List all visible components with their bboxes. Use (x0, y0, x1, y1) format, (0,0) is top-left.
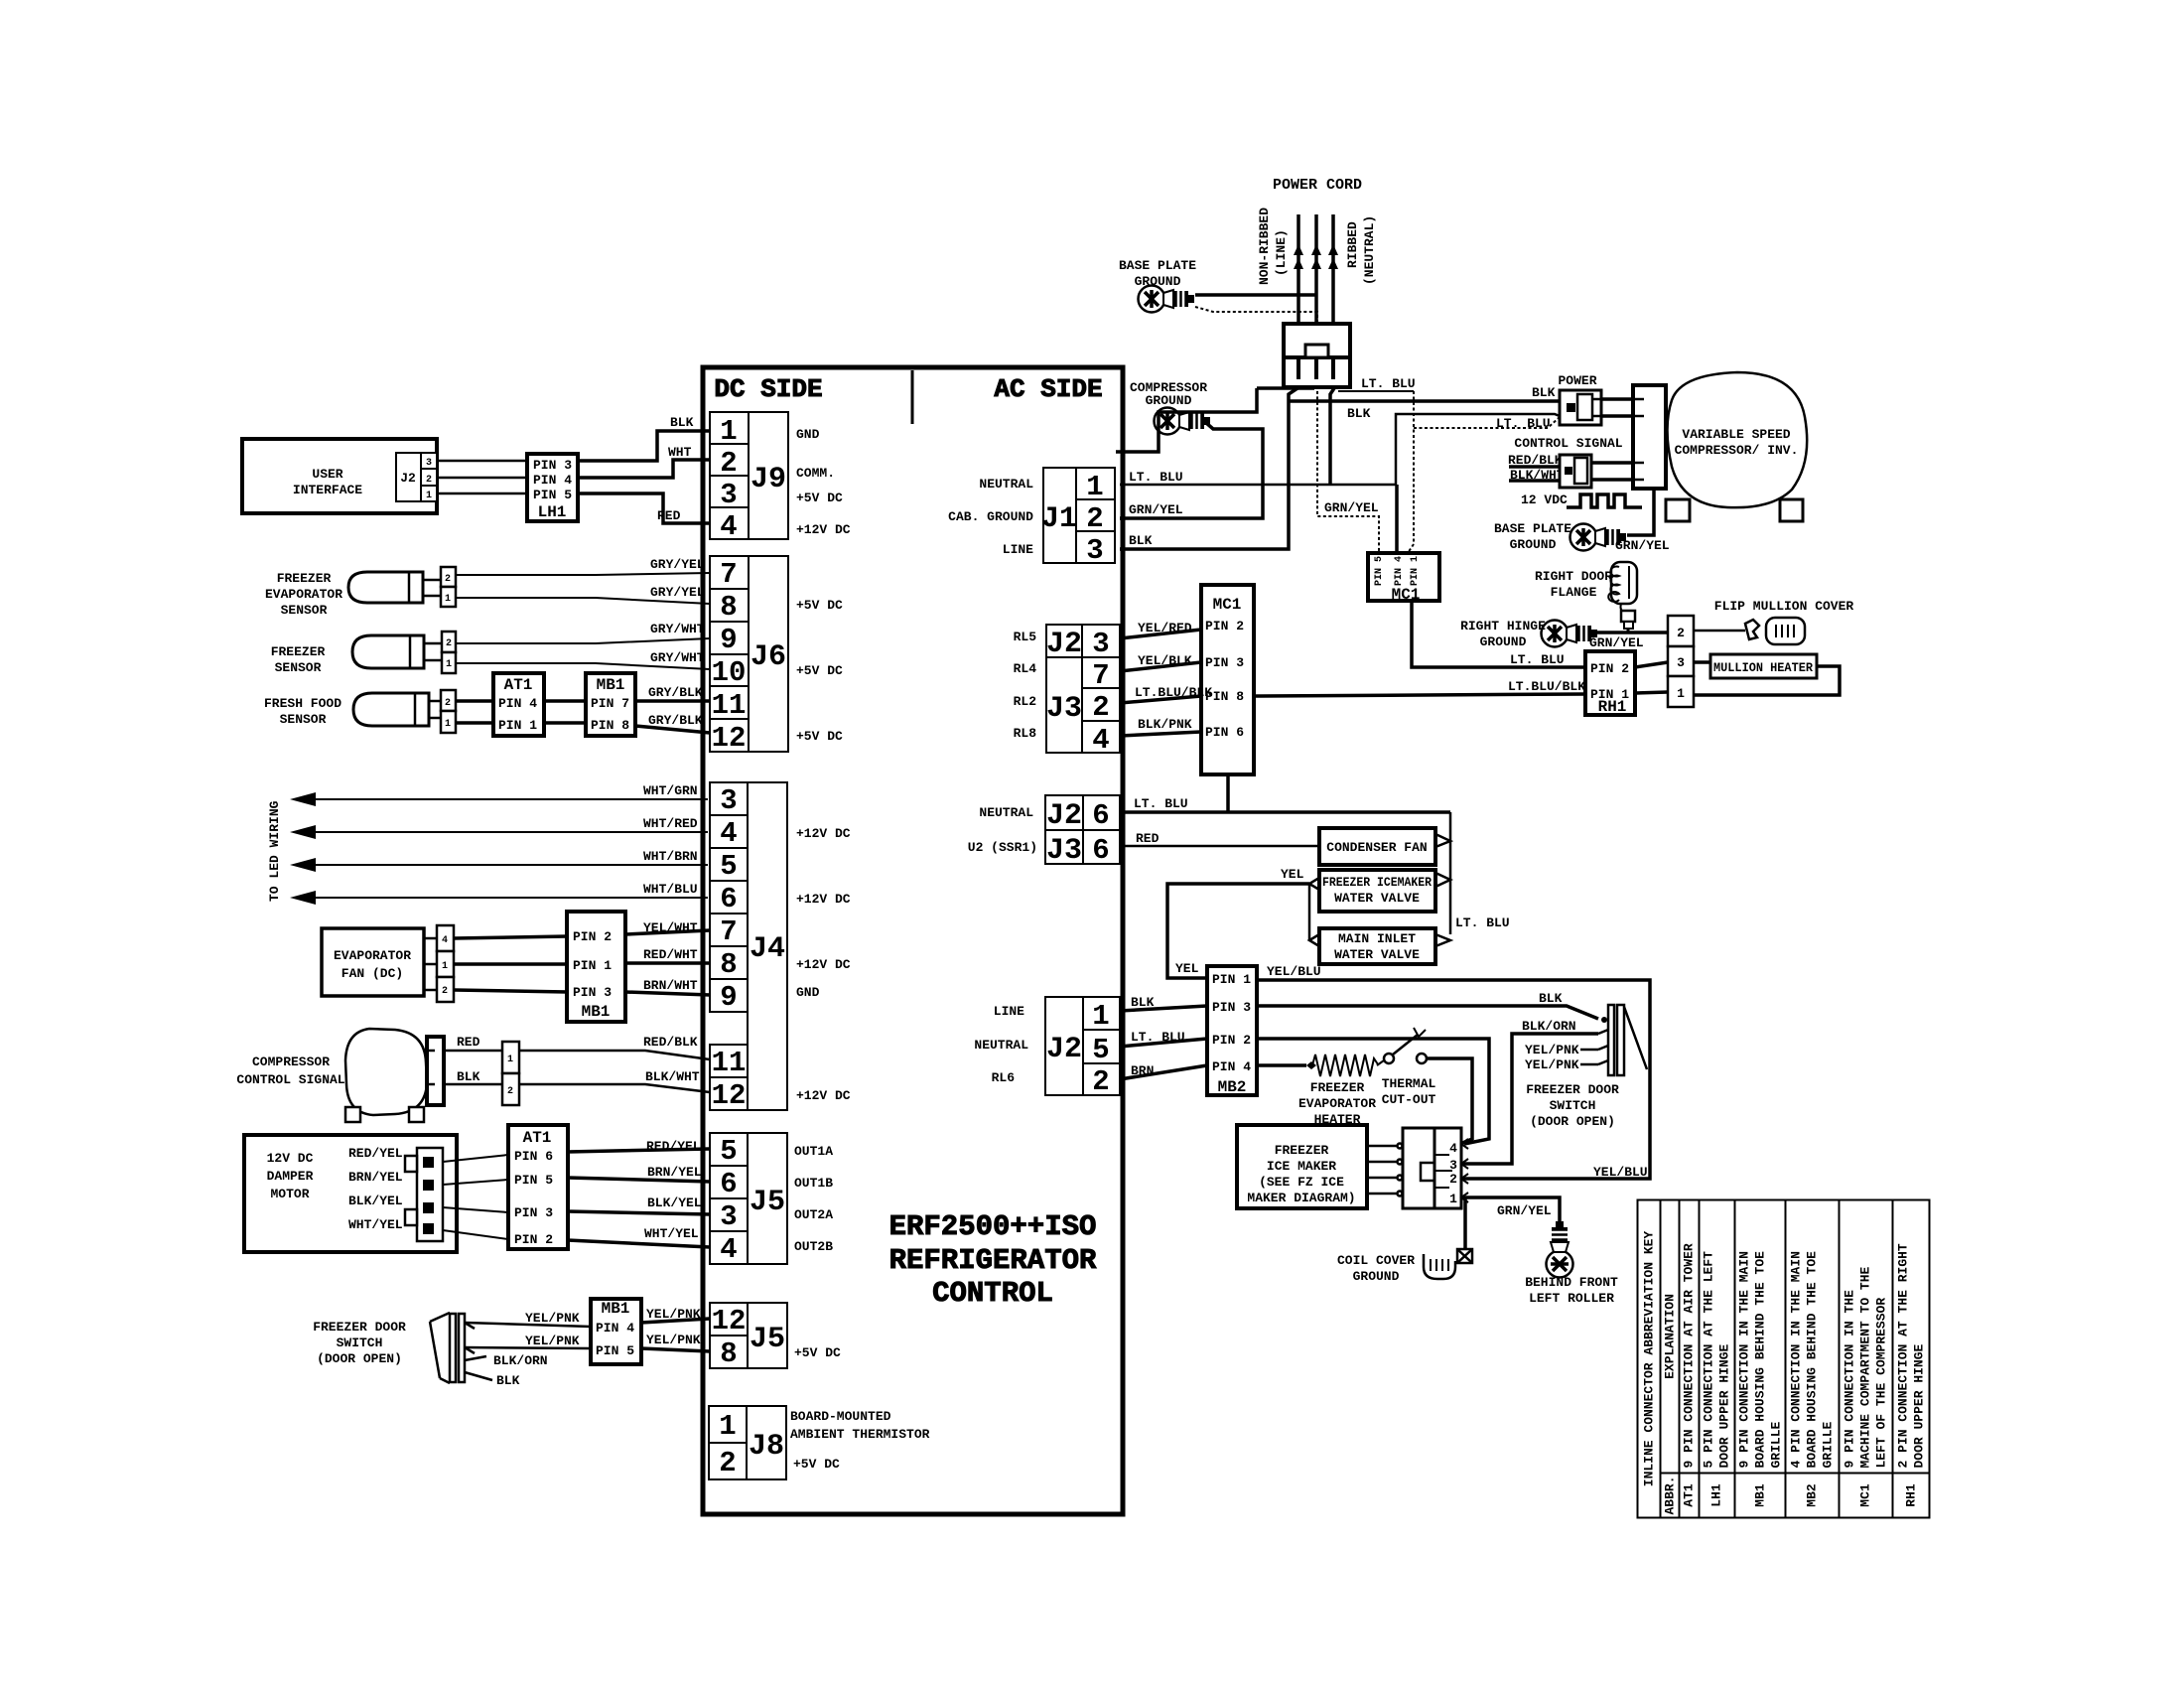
svg-text:12: 12 (712, 1305, 747, 1337)
LED wire arrow 1 WHT/GRN (294, 798, 708, 800)
svg-text:(SEE FZ ICE: (SEE FZ ICE (1259, 1175, 1344, 1190)
behind front left roller lug (1547, 1221, 1573, 1278)
svg-text:PIN 5: PIN 5 (533, 488, 572, 502)
svg-text:SENSOR: SENSOR (275, 660, 322, 675)
svg-text:1: 1 (507, 1055, 513, 1065)
wire RED/WHT to J4-8 (625, 961, 710, 965)
wire GRY/YEL to J6-8 (456, 598, 710, 604)
svg-text:LT. BLU: LT. BLU (1131, 1030, 1185, 1045)
wire BLK J2-1 to MB2 pin3 (1120, 1006, 1207, 1011)
svg-text:PIN 2: PIN 2 (1212, 1033, 1251, 1048)
connector J2 on user interface (396, 453, 437, 501)
svg-text:4: 4 (720, 1233, 737, 1266)
svg-text:GRY/BLK: GRY/BLK (648, 713, 703, 728)
svg-text:1: 1 (1449, 1192, 1457, 1206)
LED wire arrow 4 WHT/BLU (294, 897, 708, 899)
wire GRY/WHT to J6-10 (456, 663, 710, 669)
svg-text:RL6: RL6 (992, 1070, 1016, 1085)
base plate ground label (lower) (1494, 521, 1571, 552)
svg-text:PIN 4: PIN 4 (1212, 1059, 1251, 1074)
svg-text:BLK: BLK (1131, 995, 1155, 1010)
freezer sensor 2-pin connector (442, 632, 456, 673)
wire BLK/WHT to J4-12 (519, 1084, 710, 1092)
svg-text:MB1: MB1 (602, 1300, 630, 1318)
svg-text:LEFT ROLLER: LEFT ROLLER (1529, 1291, 1614, 1306)
wire YEL/PNK to MB1 pin4 (465, 1323, 591, 1327)
svg-text:8: 8 (720, 948, 737, 981)
variable speed compressor blob (1668, 372, 1808, 507)
svg-text:MOTOR: MOTOR (270, 1187, 309, 1201)
svg-text:MAKER DIAGRAM): MAKER DIAGRAM) (1247, 1191, 1355, 1205)
wire LT. BLU from J2-6 neutral bus (1120, 810, 1450, 814)
svg-text:J2: J2 (1046, 1033, 1082, 1066)
fresh food sensor bulb (353, 693, 429, 726)
svg-text:VARIABLE SPEED: VARIABLE SPEED (1682, 427, 1790, 442)
svg-text:2: 2 (720, 447, 737, 480)
svg-text:6: 6 (1092, 799, 1109, 832)
compressor ground label (1130, 380, 1207, 408)
svg-text:7: 7 (720, 915, 737, 948)
wire GRN/YEL connector pin1 to roller ground (1461, 1197, 1560, 1223)
svg-text:RED: RED (657, 508, 681, 523)
wire BLK LH1 to J9-1 (578, 431, 710, 461)
svg-text:RL2: RL2 (1014, 694, 1037, 709)
svg-text:RED: RED (1136, 831, 1160, 846)
wire LT.BLU branch up to plug right pin (1330, 388, 1334, 485)
wire base plate ground to cord (1195, 293, 1316, 297)
svg-text:8: 8 (720, 591, 737, 624)
svg-text:LT. BLU: LT. BLU (1361, 376, 1416, 391)
svg-text:11: 11 (712, 689, 747, 722)
svg-text:GND: GND (796, 985, 820, 1000)
svg-text:PIN 6: PIN 6 (1205, 725, 1244, 740)
coil cover ground label (1337, 1253, 1415, 1284)
svg-text:RED/BLK: RED/BLK (643, 1035, 698, 1050)
svg-text:3: 3 (426, 458, 432, 469)
svg-text:WATER VALVE: WATER VALVE (1334, 891, 1420, 906)
svg-text:BLK/PNK: BLK/PNK (1138, 717, 1192, 732)
wire GRY/BLK to J6-12 (635, 726, 710, 733)
svg-text:SWITCH: SWITCH (1550, 1098, 1596, 1113)
wire LT.BLU/BLK J3-2 to MC1 (1120, 696, 1201, 703)
svg-text:1: 1 (445, 719, 451, 730)
svg-text:SENSOR: SENSOR (281, 603, 328, 618)
svg-text:RL8: RL8 (1014, 726, 1037, 741)
freezer door switch (left) label (313, 1320, 406, 1366)
cord barbs (1294, 244, 1338, 269)
svg-text:GROUND: GROUND (1510, 537, 1557, 552)
svg-text:PIN 1: PIN 1 (1212, 972, 1251, 987)
svg-text:PIN 2: PIN 2 (1590, 661, 1629, 676)
inline connector abbreviation key table (rotated) (1637, 1201, 1930, 1519)
svg-text:RL5: RL5 (1014, 630, 1037, 644)
inline connector MB1 (fan) (567, 912, 625, 1022)
svg-text:+5V DC: +5V DC (796, 598, 843, 613)
wire RED/YEL to J5-5 (568, 1149, 710, 1152)
wire LT.BLU/BLK MC1 pin8 to RH1 pin1 (1254, 694, 1585, 696)
svg-text:AMBIENT THERMISTOR: AMBIENT THERMISTOR (790, 1427, 930, 1442)
svg-text:YEL/PNK: YEL/PNK (525, 1311, 580, 1326)
svg-text:FRESH FOOD: FRESH FOOD (264, 696, 341, 711)
svg-text:LT. BLU: LT. BLU (1134, 796, 1188, 811)
connector J2/J3 relays (1046, 625, 1120, 753)
svg-text:YEL/BLK: YEL/BLK (1138, 653, 1192, 668)
svg-text:6: 6 (720, 1168, 737, 1200)
svg-text:GROUND: GROUND (1480, 634, 1527, 649)
svg-text:GRY/WHT: GRY/WHT (650, 650, 705, 665)
wires sensor to AT1 (456, 699, 493, 703)
svg-text:NEUTRAL: NEUTRAL (974, 1038, 1028, 1053)
base plate ground lug (lower) (1570, 524, 1627, 551)
wire GRY/BLK to J6-11 (635, 699, 710, 703)
svg-text:3: 3 (720, 1200, 737, 1233)
svg-text:EVAPORATOR: EVAPORATOR (1298, 1096, 1376, 1111)
svg-text:YEL/PNK: YEL/PNK (646, 1307, 701, 1322)
svg-text:12 VDC: 12 VDC (1521, 492, 1568, 507)
control signal wires (1509, 465, 1560, 469)
svg-text:PIN 5: PIN 5 (514, 1173, 553, 1188)
svg-text:LT. BLU: LT. BLU (1496, 416, 1551, 431)
freezer ice maker box (1237, 1125, 1367, 1208)
wire connector pin1 to coil cover ground (1463, 1197, 1467, 1252)
condenser fan box (1319, 828, 1435, 865)
svg-text:GRY/BLK: GRY/BLK (648, 685, 703, 700)
inline connector AT1 (fresh food) (493, 673, 544, 736)
fresh food sensor 2-pin connector (441, 690, 456, 733)
connector cell arrowheads (1461, 1139, 1468, 1202)
wires control to inverter (1591, 461, 1633, 465)
compressor control signal label (236, 1055, 344, 1087)
svg-text:MC1: MC1 (1213, 596, 1242, 614)
ice maker connector body (1403, 1128, 1461, 1208)
square wave symbol (1567, 494, 1642, 507)
svg-text:J2: J2 (1046, 628, 1082, 661)
svg-text:+5V DC: +5V DC (796, 729, 843, 744)
svg-text:COMPRESSOR/ INV.: COMPRESSOR/ INV. (1675, 443, 1799, 458)
inline connector MB1 (fresh food) (586, 673, 635, 736)
inline connector RH1 (1585, 651, 1635, 715)
wire BLK/YEL to J5-3 (568, 1211, 710, 1214)
svg-text:AC SIDE: AC SIDE (994, 374, 1102, 404)
svg-text:EVAPORATOR: EVAPORATOR (265, 587, 342, 602)
svg-text:(LINE): (LINE) (1274, 229, 1289, 276)
svg-text:BLK: BLK (1539, 991, 1563, 1006)
compressor ground lug (1155, 408, 1211, 435)
wire BRN/YEL to J5-6 (568, 1178, 710, 1182)
svg-text:4: 4 (720, 510, 737, 543)
wire plug right pin thin line to dotted drop (1338, 390, 1414, 392)
svg-text:YEL/PNK: YEL/PNK (1525, 1043, 1579, 1057)
svg-text:LINE: LINE (994, 1004, 1024, 1019)
svg-text:MAIN INLET: MAIN INLET (1338, 931, 1416, 946)
svg-text:2: 2 (1449, 1172, 1457, 1187)
inline connector AT1 (damper) (508, 1125, 568, 1249)
svg-text:PIN 3: PIN 3 (1212, 1000, 1251, 1015)
wire YEL/PNK MB1 to J5-8 (641, 1348, 710, 1351)
svg-text:LH1: LH1 (538, 503, 567, 521)
svg-text:BRN/WHT: BRN/WHT (643, 978, 698, 993)
valve left bus (1309, 878, 1319, 946)
2/3/1 connector strip (1668, 616, 1694, 707)
freezer door switch (right) symbol (1598, 1005, 1647, 1075)
CONTROL SIGNAL connector symbol (1560, 455, 1591, 488)
freezer evaporator sensor bulb (348, 572, 423, 603)
compressor blob (control signal) (345, 1029, 427, 1115)
svg-text:PIN 5: PIN 5 (1374, 556, 1385, 586)
svg-text:PIN 4: PIN 4 (533, 473, 572, 488)
svg-text:EVAPORATOR: EVAPORATOR (334, 948, 411, 963)
svg-text:PIN 3: PIN 3 (1205, 655, 1244, 670)
wire GRY/WHT to J6-9 (456, 638, 710, 643)
svg-text:NON-RIBBED: NON-RIBBED (1257, 208, 1272, 285)
wires POWER to inverter (1601, 397, 1633, 401)
evaporator fan box (322, 928, 424, 996)
svg-text:+5V DC: +5V DC (796, 663, 843, 678)
dotted wire drop to MC1 pin1 (1408, 391, 1414, 553)
svg-text:(NEUTRAL): (NEUTRAL) (1362, 215, 1377, 285)
svg-text:WHT/BRN: WHT/BRN (643, 849, 698, 864)
evaporator fan connector strip (437, 925, 454, 1002)
svg-text:U2 (SSR1): U2 (SSR1) (968, 840, 1037, 855)
svg-text:4: 4 (442, 935, 448, 946)
svg-text:2: 2 (507, 1086, 513, 1097)
freezer door switch (right) label (1526, 1082, 1619, 1129)
svg-text:GROUND: GROUND (1146, 393, 1192, 408)
svg-text:INTERFACE: INTERFACE (293, 483, 362, 497)
svg-text:1: 1 (446, 659, 452, 670)
svg-text:J2: J2 (1046, 799, 1082, 833)
svg-text:RL4: RL4 (1014, 661, 1037, 676)
svg-text:CAB. GROUND: CAB. GROUND (948, 509, 1033, 524)
connector J8 (709, 1406, 786, 1479)
svg-text:GRN/YEL: GRN/YEL (1129, 502, 1183, 517)
label NON-RIBBED (LINE) rotated (1257, 208, 1289, 285)
svg-text:AT1: AT1 (523, 1129, 552, 1147)
svg-text:+12V DC: +12V DC (796, 957, 851, 972)
freezer door switch (left) symbol (430, 1313, 492, 1383)
svg-text:WATER VALVE: WATER VALVE (1334, 947, 1420, 962)
svg-text:J5: J5 (750, 1186, 785, 1219)
svg-text:PIN 2: PIN 2 (1205, 619, 1244, 633)
wire strip pin3 to mullion heater (1694, 660, 1710, 664)
svg-text:COIL COVER: COIL COVER (1337, 1253, 1415, 1268)
wire YEL valve to MB2 pin1 (1167, 884, 1309, 978)
svg-text:J4: J4 (750, 932, 785, 966)
svg-text:FREEZER ICEMAKER: FREEZER ICEMAKER (1322, 875, 1432, 890)
svg-text:BLK: BLK (496, 1373, 520, 1388)
svg-text:J1: J1 (1041, 502, 1077, 536)
svg-text:9: 9 (720, 981, 737, 1014)
plug bottom edge extension (1257, 386, 1314, 390)
svg-text:MULLION HEATER: MULLION HEATER (1713, 660, 1813, 675)
svg-text:PIN 3: PIN 3 (573, 985, 612, 1000)
svg-text:10: 10 (712, 656, 747, 689)
damper motor connector symbol (405, 1148, 443, 1241)
svg-text:1: 1 (442, 961, 448, 972)
svg-text:TO LED WIRING: TO LED WIRING (267, 800, 282, 902)
compressor 2-pin connector (502, 1042, 519, 1105)
svg-text:5: 5 (720, 850, 737, 883)
svg-text:2: 2 (1092, 1065, 1109, 1098)
svg-text:J2: J2 (400, 471, 416, 486)
svg-text:J8: J8 (749, 1430, 784, 1464)
svg-text:1: 1 (1092, 1000, 1109, 1033)
svg-text:OUT1A: OUT1A (794, 1144, 833, 1159)
svg-text:CONTROL SIGNAL: CONTROL SIGNAL (236, 1072, 344, 1087)
svg-text:RED: RED (457, 1035, 480, 1050)
wire UI pin3 to LH1 (437, 460, 527, 463)
dotted LT.BLU wire to POWER connector (1414, 417, 1560, 428)
wire WHT/YEL to J5-4 (568, 1240, 710, 1247)
svg-text:RIGHT HINGE: RIGHT HINGE (1460, 619, 1546, 633)
svg-text:12: 12 (712, 1079, 747, 1112)
svg-text:2: 2 (442, 986, 448, 997)
plug pins (1298, 359, 1333, 379)
wire BLK/ORN switch to icemaker connector pin3 (1461, 1034, 1598, 1164)
user interface box (242, 439, 437, 513)
wire YEL/PNK to MB1 pin5 (465, 1347, 591, 1348)
svg-text:PIN 7: PIN 7 (591, 696, 629, 711)
svg-text:3: 3 (1092, 628, 1109, 660)
ice maker connector stubs (1367, 1144, 1403, 1196)
right door flange symbol (1608, 562, 1637, 633)
svg-text:+12V DC: +12V DC (796, 522, 851, 537)
dotted GRN/YEL wire from base plate ground (1195, 307, 1379, 553)
svg-text:FREEZER DOOR: FREEZER DOOR (313, 1320, 406, 1335)
svg-text:RIGHT DOOR: RIGHT DOOR (1535, 569, 1612, 584)
svg-text:1: 1 (445, 594, 451, 605)
svg-text:ERF2500++ISO: ERF2500++ISO (889, 1210, 1097, 1243)
svg-text:YEL: YEL (1175, 961, 1199, 976)
svg-text:POWER CORD: POWER CORD (1273, 177, 1362, 194)
compressor feet (1666, 499, 1690, 521)
wire GRY/YEL to J6-7 (456, 573, 710, 575)
wire GRN/YEL from J1-2 to compressor ground (1120, 422, 1263, 518)
svg-text:DAMPER: DAMPER (267, 1169, 314, 1184)
svg-text:J3: J3 (1046, 692, 1082, 726)
svg-text:SENSOR: SENSOR (280, 712, 327, 727)
freezer evaporator heater coil (1306, 1055, 1384, 1076)
svg-text:BLK/ORN: BLK/ORN (1522, 1019, 1576, 1034)
svg-text:1: 1 (1677, 686, 1685, 701)
svg-text:CONTROL: CONTROL (932, 1277, 1053, 1310)
svg-text:FREEZER DOOR: FREEZER DOOR (1526, 1082, 1619, 1097)
svg-text:BOARD-MOUNTED: BOARD-MOUNTED (790, 1409, 891, 1424)
right door flange label (1535, 569, 1612, 600)
svg-text:2: 2 (719, 1447, 736, 1479)
svg-text:GRN/YEL: GRN/YEL (1324, 500, 1379, 515)
main control board ERF2500 outline (703, 367, 1123, 1514)
svg-text:2: 2 (1086, 502, 1103, 535)
svg-text:5: 5 (720, 1135, 737, 1168)
svg-text:BRN/YEL: BRN/YEL (348, 1170, 403, 1185)
svg-text:MB2: MB2 (1218, 1078, 1247, 1096)
base plate ground lug (top) (1139, 286, 1195, 313)
coil cover ground symbol (1424, 1249, 1472, 1279)
freezer evaporator sensor 2-pin connector (441, 567, 456, 607)
inline connector MB1 (door switch) (591, 1299, 641, 1364)
wire MB2 pin4 to heater (1257, 1063, 1306, 1067)
power cord wires (1298, 214, 1333, 324)
svg-text:OUT2B: OUT2B (794, 1239, 833, 1254)
svg-text:YEL/BLU: YEL/BLU (1267, 964, 1321, 979)
svg-text:3: 3 (1677, 655, 1685, 670)
right hinge ground label (1460, 619, 1546, 649)
svg-text:GRN/YEL: GRN/YEL (1497, 1203, 1552, 1218)
svg-text:(DOOR OPEN): (DOOR OPEN) (317, 1351, 402, 1366)
wire RED to 2pin (444, 1050, 502, 1053)
svg-text:FAN (DC): FAN (DC) (341, 966, 403, 981)
svg-text:LT.BLU/BLK: LT.BLU/BLK (1135, 685, 1212, 700)
svg-text:3: 3 (720, 784, 737, 817)
svg-text:11: 11 (712, 1047, 747, 1079)
svg-text:2: 2 (426, 475, 432, 486)
svg-text:WHT/YEL: WHT/YEL (644, 1226, 699, 1241)
svg-text:BASE PLATE: BASE PLATE (1119, 258, 1196, 273)
wire BLK to 2pin (444, 1083, 502, 1086)
svg-text:YEL/WHT: YEL/WHT (643, 920, 698, 935)
svg-text:COMPRESSOR: COMPRESSOR (252, 1055, 330, 1069)
svg-text:6: 6 (1092, 834, 1109, 867)
svg-text:1: 1 (426, 491, 432, 501)
svg-text:3: 3 (720, 479, 737, 511)
wires AT1 to MB1 (544, 699, 586, 703)
svg-text:BLK/YEL: BLK/YEL (647, 1196, 702, 1210)
svg-text:+12V DC: +12V DC (796, 892, 851, 907)
wire plug case to board edge (1116, 388, 1257, 452)
svg-text:BRN: BRN (1131, 1063, 1154, 1078)
wire UI pin2 to LH1 (437, 477, 527, 480)
LED wire arrow 3 WHT/BRN (294, 864, 708, 866)
svg-text:RED/WHT: RED/WHT (643, 947, 698, 962)
wire RED from J3-6 to condenser fan (1120, 845, 1319, 848)
wire MB2 pin2 to icemaker connector pin4 (1257, 1039, 1489, 1144)
POWER connector symbol (1560, 390, 1601, 425)
inline connector LH1 (527, 454, 578, 521)
wire strip pin2 to flip mullion cover (1694, 630, 1745, 633)
svg-text:2: 2 (446, 638, 452, 649)
wire thermal cut-out to icemaker connector pin4 (1427, 1058, 1472, 1144)
wire BRN J2-2 to MB2 pin4 (1120, 1065, 1207, 1079)
svg-text:PIN 4: PIN 4 (1394, 556, 1405, 586)
connector J6 (710, 556, 788, 752)
svg-text:BLK: BLK (457, 1069, 480, 1084)
svg-text:YEL/PNK: YEL/PNK (525, 1334, 580, 1348)
svg-text:GRY/YEL: GRY/YEL (650, 557, 705, 572)
damper motor box (244, 1135, 457, 1252)
wire YEL/BLU MB2 pin1 loop to icemaker connector pin2 (1257, 980, 1650, 1179)
svg-text:+5V DC: +5V DC (796, 491, 843, 505)
wire BLK branch to POWER connector (1289, 399, 1560, 403)
svg-text:FREEZER: FREEZER (1275, 1143, 1329, 1158)
svg-text:J3: J3 (1046, 834, 1082, 868)
svg-text:RH1: RH1 (1598, 698, 1627, 716)
connector J2 line/neutral/RL6 (1045, 997, 1120, 1095)
svg-text:+12V DC: +12V DC (796, 826, 851, 841)
svg-text:COMM.: COMM. (796, 466, 835, 481)
svg-text:2: 2 (1677, 626, 1685, 640)
svg-text:PIN 2: PIN 2 (573, 929, 612, 944)
svg-text:PIN 1: PIN 1 (573, 958, 612, 973)
svg-text:PIN 8: PIN 8 (591, 718, 629, 733)
svg-text:CUT-OUT: CUT-OUT (1382, 1092, 1436, 1107)
svg-text:6: 6 (720, 883, 737, 915)
svg-text:BLK/YEL: BLK/YEL (348, 1194, 403, 1208)
wire MC1 bottom to neutral bus (1226, 774, 1230, 812)
svg-text:WHT/RED: WHT/RED (643, 816, 698, 831)
svg-text:+5V DC: +5V DC (794, 1345, 841, 1360)
svg-text:YEL/PNK: YEL/PNK (646, 1333, 701, 1347)
